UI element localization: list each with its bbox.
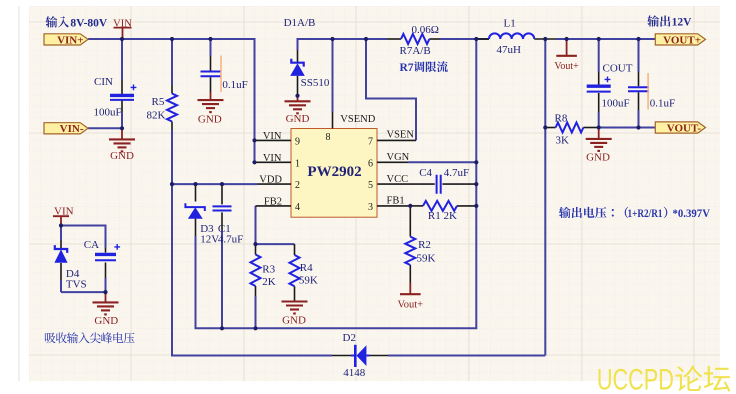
junction dots [120,37,124,41]
ground (CA island) [105,292,107,302]
resistor R4 59K [290,244,318,301]
svg-text:R3: R3 [262,264,275,276]
svg-text:2K: 2K [262,276,276,288]
svg-text:1: 1 [295,158,300,169]
title 输出12V [647,15,692,28]
annotation R7调限流 [400,61,448,74]
resistor R2 59K [405,206,435,283]
wire R5 bottom / VDD net down to bottom rail toward D2 [172,130,332,356]
wire VSEND pin 8 up to SW rail [332,39,334,112]
svg-text:4: 4 [295,202,300,213]
svg-text:D2: D2 [343,332,356,344]
svg-text:SS510: SS510 [301,77,330,89]
svg-text:C4: C4 [419,167,432,179]
svg-text:R1 2K: R1 2K [428,210,457,222]
wire VIN island top [61,226,106,248]
wire right loop vertical VOUT+ to bottom [544,39,546,356]
power port Vout+ (top) [566,39,568,56]
svg-text:R7A/B: R7A/B [400,45,431,57]
svg-text:VGN: VGN [387,152,410,163]
wire D2 cathode side to right loop [388,355,545,357]
svg-text:8V-80V: 8V-80V [70,17,108,29]
power port Vout+ (below R2) [409,283,411,294]
U1 pin 6 VGN [368,152,410,169]
capacitor C4 4.7uF [377,167,476,194]
wire R8 left lead to loop [546,127,556,129]
resistor R7A/B 0.06ohm [387,24,440,57]
wire VOUT- rail [599,127,656,129]
svg-text:FB2: FB2 [264,196,282,207]
svg-text:12V: 12V [200,233,219,245]
wire FB2 to R3/R4 top [256,206,295,244]
svg-text:Vout+: Vout+ [554,61,579,72]
ground (CIN) [121,128,123,139]
U1 pin 7 VSEN [368,129,416,147]
svg-text:VOUT+: VOUT+ [663,34,701,46]
svg-text:47uH: 47uH [497,44,522,56]
port VOUT+ tag [655,34,705,45]
svg-text:R8: R8 [555,112,568,124]
annotation 吸收输入尖峰电压 [45,332,135,343]
wire R3 bottom lead [255,296,257,328]
power port VIN (island) [53,206,74,226]
svg-text:R5: R5 [152,96,165,108]
svg-text:TVS: TVS [66,279,87,291]
svg-text:VIN: VIN [263,131,282,142]
svg-text:R2: R2 [418,239,431,251]
svg-text:12V: 12V [672,17,693,29]
resistor R8 3K [555,112,584,146]
U1 pin 4 FB2 [256,196,301,213]
wire VIN island bottom [61,278,106,292]
svg-text:*0.397V: *0.397V [673,208,711,220]
ground (D1) [297,96,299,102]
wire COUT bottom lead [598,112,600,128]
wire SW rail from D1 to 0.06ohm resistor [298,39,388,50]
inductor L1 47uH [476,17,556,56]
svg-text:3K: 3K [556,135,570,147]
title 输入8V-80V [46,16,108,29]
svg-text:VSEND: VSEND [340,114,375,125]
svg-text:0.06Ω: 0.06Ω [412,24,439,36]
svg-text:59K: 59K [299,274,318,286]
wire 0.06ohm to L1 [440,38,489,40]
op-amp/regulator U1 PW2902 body [291,129,377,218]
diode D1A/B SS510 schottky [284,17,330,96]
wire R5 top lead [171,39,173,85]
diode D4 TVS [54,240,86,291]
svg-text:VDD: VDD [259,175,282,186]
wire CIN bottom to VIN- junction [121,112,123,128]
svg-text:59K: 59K [417,253,436,265]
svg-text:2: 2 [295,180,300,191]
svg-text:4.7uF: 4.7uF [218,233,243,245]
svg-text:9: 9 [295,137,300,148]
annotation 输出电压：（1+R2/R1）*0.397V [559,207,711,220]
port VOUT- tag [655,122,705,133]
svg-text:VCC: VCC [387,174,409,185]
wire VIN- stub [88,127,122,129]
wire 0.1uF(C3) top lead [638,39,640,72]
svg-text:100uF: 100uF [94,106,122,118]
capacitor C3 0.1uF (output) [628,72,675,110]
capacitor COUT 100uF polarized [587,63,633,112]
svg-text:VOUT-: VOUT- [667,122,702,134]
svg-text:CA: CA [84,239,99,251]
svg-text:100uF: 100uF [602,97,630,109]
port VIN+ tag [44,34,88,45]
resistor R5 82K [147,85,178,130]
svg-text:GND: GND [586,152,610,164]
ground (R4) [294,300,296,303]
wire L1 to VOUT+ tag [556,38,655,40]
U1 pin 3 FB1 [368,196,410,213]
svg-text:COUT: COUT [603,63,633,75]
wire VGN to vertical [408,161,476,163]
U1 pin 5 VCC [368,174,408,191]
svg-text:4.7uF: 4.7uF [444,167,469,179]
U1 pin 1 VIN [255,153,301,170]
svg-text:82K: 82K [147,109,166,121]
wire COUT top lead [598,39,600,72]
svg-text:FB1: FB1 [387,196,405,207]
wire 0.1uF(C2) top lead [210,39,212,56]
svg-text:6: 6 [368,158,373,169]
svg-text:UCCPD: UCCPD [597,364,674,394]
svg-text:7: 7 [368,137,373,148]
svg-text:GND: GND [286,113,310,125]
diode D3 zener 12V [185,184,219,245]
svg-text:3: 3 [368,202,373,213]
diode D2 4148 [332,332,388,379]
wire VIN+ rail from VIN+ tag to chip VIN pins [88,39,255,162]
capacitor CA polarized [84,239,120,278]
svg-text:GND: GND [110,150,134,162]
wire VSEN pin to SW rail [366,39,416,140]
svg-text:R7: R7 [400,62,414,74]
wire VDD horizontal [172,183,258,185]
svg-text:VIN-: VIN- [60,123,84,135]
svg-text:Vout+: Vout+ [398,300,424,311]
wire 0.1uF(C3) bottom lead [638,110,640,128]
svg-text:8: 8 [326,132,331,143]
watermark UCCPD论坛 [597,364,730,394]
wire R8 right lead [583,127,598,129]
ground (COUT) [598,128,600,139]
svg-text:L1: L1 [504,17,516,29]
wire C1 bottom lead [221,230,223,328]
resistor R3 2K [251,244,276,296]
capacitor C1 4.7uF [213,184,244,245]
svg-text:R4: R4 [300,262,313,274]
svg-text:0.1uF: 0.1uF [650,97,675,109]
svg-text:VIN: VIN [263,153,282,164]
svg-text:CIN: CIN [94,76,113,88]
capacitor CIN 100uF polarized [94,76,137,118]
capacitor C2 0.1uF (input) [201,56,248,93]
U1 pin 9 VIN [255,131,301,148]
power port VIN (top input) [113,18,132,39]
svg-text:VIN+: VIN+ [57,34,83,46]
svg-text:4148: 4148 [343,367,366,379]
svg-text:GND: GND [198,114,222,126]
resistor R1 2K [410,201,476,222]
U1 pin 2 VDD [258,175,301,192]
port VIN- tag [44,123,88,134]
wire CIN top lead [121,39,123,80]
svg-text:D1A/B: D1A/B [284,17,316,29]
svg-text:1+R2/R1: 1+R2/R1 [628,208,663,220]
svg-text:5: 5 [368,180,373,191]
ground (C2 0.1uF) [210,93,212,101]
svg-text:0.1uF: 0.1uF [222,79,247,91]
wire D3 anode down, bottom feedback rail, up to R1 right vertical [196,39,477,328]
svg-text:PW2902: PW2902 [307,164,361,180]
svg-text:GND: GND [94,315,118,327]
svg-text:VSEN: VSEN [387,129,415,140]
U1 pin 8 VSEND [326,112,376,143]
svg-text:GND: GND [282,315,306,327]
